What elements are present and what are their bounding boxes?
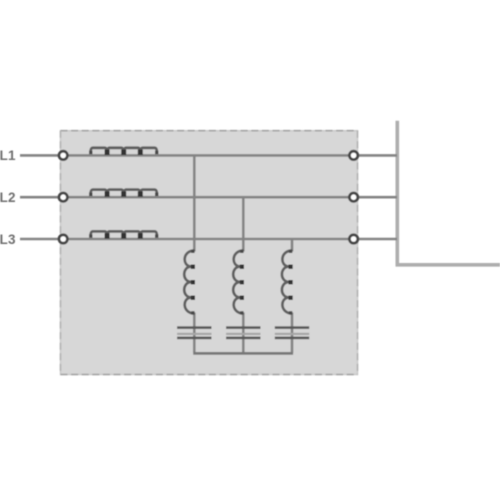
svg-text:L2: L2 — [0, 190, 16, 205]
svg-text:L3: L3 — [0, 232, 16, 247]
svg-text:L1: L1 — [0, 148, 16, 163]
